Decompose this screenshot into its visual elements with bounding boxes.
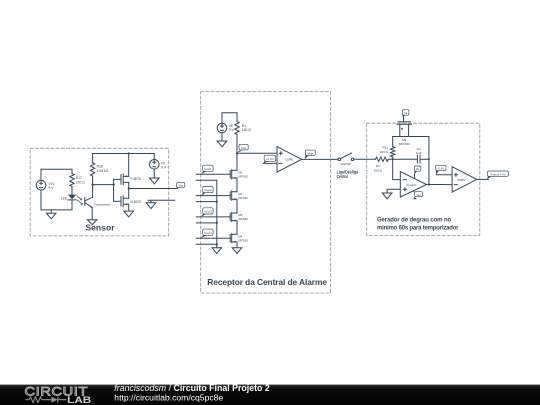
svg-text:R21: R21	[382, 145, 388, 149]
ground (bus)	[212, 248, 222, 254]
flag -0.6V	[436, 171, 439, 175]
wire collector vertical / R18 leads	[92, 154, 94, 198]
wire inner loop left lower	[40, 190, 42, 210]
ground (V9)	[150, 178, 160, 184]
wire R17 to LED	[71, 187, 73, 195]
wire ground to opamp plus	[387, 189, 400, 193]
transistor M1 IRF530	[230, 170, 237, 179]
voltage source V10	[36, 180, 46, 190]
voltage source V8	[217, 123, 227, 133]
transistor N-MOS (sensor)	[121, 196, 129, 207]
sensor section dashed box	[30, 148, 169, 236]
resistor R17	[70, 174, 74, 187]
svg-text:9V: 9V	[416, 167, 420, 171]
svg-text:IRF530: IRF530	[238, 196, 248, 200]
svg-text:Vss: Vss	[178, 183, 183, 187]
svg-text:http://circuitlab.com/cq5pc8e: http://circuitlab.com/cq5pc8e	[114, 393, 223, 403]
svg-text:Receptor da Central de Alarme: Receptor da Central de Alarme	[207, 277, 327, 287]
transistor M4 IRF530	[230, 234, 237, 243]
ground (opamp plus)	[382, 193, 392, 199]
wire gate bus vertical	[113, 179, 115, 201]
svg-text:Vsaout = 9V: Vsaout = 9V	[490, 172, 505, 176]
node dot A	[392, 158, 394, 160]
node dot rail/PMOS	[128, 152, 130, 154]
flag Vext2	[201, 193, 207, 196]
svg-text:Sensor: Sensor	[85, 223, 115, 233]
svg-text:+2.5V: +2.5V	[266, 157, 274, 161]
ground (M4 chain)	[232, 248, 242, 254]
wire reference stub	[148, 199, 175, 201]
svg-text:100 Ω: 100 Ω	[76, 181, 85, 185]
svg-text:minimo 60s para temporizador: minimo 60s para temporizador	[377, 225, 459, 231]
wire V10b drop	[153, 154, 155, 160]
wire P-MOS to N-MOS	[128, 182, 130, 198]
wire top rail M9	[393, 136, 429, 138]
op-amp AmpOp	[400, 172, 426, 198]
wire gate M1	[196, 173, 230, 175]
ground (V8)	[217, 141, 227, 147]
wire CMP2 plus input	[436, 174, 452, 176]
svg-text:franciscodsm / Circuito Final: franciscodsm / Circuito Final Projeto 2	[114, 383, 270, 393]
svg-text:CMP2: CMP2	[457, 178, 466, 182]
wire M3 source to M4 drain	[236, 221, 238, 235]
svg-text:Vext1: Vext1	[204, 167, 212, 171]
ground (reference stub)	[146, 200, 156, 208]
node dot return2/bus	[216, 201, 218, 203]
transistor M2 IRF530	[230, 191, 237, 200]
flag Vss	[176, 187, 180, 189]
svg-text:Fototransistor: Fototransistor	[94, 202, 111, 206]
wire comparator minus stub	[263, 162, 277, 164]
wire LED to bottom	[71, 200, 73, 210]
wire V- stub	[413, 191, 415, 192]
svg-text:9 V: 9 V	[49, 186, 55, 190]
wire V8 to ground	[221, 133, 223, 141]
flag +2.5V	[263, 161, 268, 163]
flag Vext4	[201, 235, 207, 238]
resistor R18	[90, 163, 94, 176]
flag 9V (V+)	[414, 171, 417, 175]
svg-text:R2: R2	[376, 164, 380, 168]
wire CMP1 output	[302, 158, 340, 160]
svg-text:1 µF: 1 µF	[416, 151, 422, 155]
wire V+ stub	[414, 175, 416, 179]
wire gate M4	[196, 237, 230, 239]
flag Va	[403, 115, 406, 118]
wire M1 source to M2 drain	[236, 178, 238, 192]
flag Vext3	[201, 214, 207, 217]
node dot output	[128, 187, 130, 189]
wire V8 top	[222, 113, 237, 124]
wire CMP2 output	[477, 178, 489, 180]
voltage source V9 (sensor right)	[150, 160, 160, 170]
wire R17 top lead	[71, 169, 73, 173]
wire return 3	[196, 222, 217, 224]
svg-text:Vext4: Vext4	[204, 231, 212, 235]
resistor R21	[391, 147, 395, 158]
wire M2 source to M3 drain	[236, 199, 238, 213]
svg-text:P-MOS: P-MOS	[130, 177, 140, 181]
wire switch to R2	[354, 158, 376, 160]
node dot return4/bus	[216, 243, 218, 245]
svg-text:100 Ω: 100 Ω	[242, 128, 251, 132]
wire inner loop top	[41, 168, 72, 170]
svg-text:AmpOp: AmpOp	[406, 183, 417, 187]
wire output to Vss	[129, 188, 178, 190]
wire feedback vertical	[428, 137, 430, 185]
LED D1	[68, 195, 76, 200]
ground (N-MOS)	[124, 211, 134, 217]
wire R21 lower lead	[392, 157, 394, 159]
svg-text:100 Ω: 100 Ω	[380, 150, 389, 154]
wire P-MOS drain up	[128, 154, 130, 177]
svg-text:Va: Va	[404, 111, 408, 115]
node dot return3/bus	[216, 222, 218, 224]
flag Vsaout = 9V	[487, 176, 491, 179]
wire C4 to feedback	[420, 158, 429, 160]
wire R1 to M1	[236, 135, 238, 171]
phototransistor emitter	[85, 203, 92, 208]
svg-text:Vala: Vala	[307, 151, 313, 155]
switch SW1 ON/OFF	[338, 158, 341, 161]
svg-text:Vext3: Vext3	[204, 210, 212, 214]
svg-text:100 Ω: 100 Ω	[374, 168, 383, 172]
node dot collector/gate	[92, 184, 94, 186]
logo resistor squiggle	[26, 397, 52, 403]
svg-text:IRF530: IRF530	[238, 217, 248, 221]
op-amp CMP1	[277, 147, 302, 173]
svg-text:CMP1: CMP1	[285, 158, 294, 162]
flag Vext1	[201, 171, 207, 174]
node dot gate bus	[113, 184, 115, 186]
phototransistor Q1 base bar	[84, 197, 86, 205]
resistor R1	[235, 122, 239, 135]
wire inner loop bottom	[41, 209, 72, 211]
svg-text:N-MOS: N-MOS	[130, 200, 141, 204]
LED light arrows	[77, 196, 82, 205]
wire N-MOS gate stub	[114, 200, 121, 202]
node dot C4/feedback	[428, 158, 430, 160]
wire Va to gate	[403, 117, 405, 121]
wire V9 to ground	[153, 169, 155, 178]
wire return 2	[196, 201, 217, 203]
wire gate M3	[196, 216, 230, 218]
wire M4 source down	[236, 242, 238, 248]
svg-text:LAB: LAB	[67, 395, 91, 405]
svg-text:R17: R17	[76, 176, 82, 180]
wire P-MOS gate stub	[114, 178, 121, 180]
wire top rail	[93, 153, 155, 155]
svg-text:IRF530: IRF530	[238, 239, 248, 243]
wire gate input	[93, 184, 114, 186]
wire return 4	[196, 243, 217, 245]
wire AmpOp output to CMP2	[427, 184, 453, 186]
wire R21 to rail	[392, 137, 394, 147]
svg-text:LED: LED	[61, 197, 68, 201]
svg-text:-0.6V: -0.6V	[437, 167, 444, 171]
svg-text:IRF530: IRF530	[238, 175, 248, 179]
wire return 1	[196, 179, 217, 181]
flag Vala	[304, 155, 308, 159]
phototransistor collector	[85, 197, 93, 201]
wire R2 to node A	[388, 158, 417, 160]
svg-text:-9V: -9V	[416, 193, 420, 197]
transistor M3 IRF530	[230, 212, 237, 221]
svg-text:R18: R18	[97, 165, 103, 169]
node dot output/feedback	[428, 183, 430, 185]
node dot R1/comparator	[236, 152, 238, 154]
wire comparator plus input	[237, 152, 277, 154]
svg-text:9 V: 9 V	[161, 165, 167, 169]
svg-text:Vext2: Vext2	[204, 188, 212, 192]
flag -9V (V-)	[415, 192, 423, 197]
wire N-MOS source down	[128, 204, 130, 211]
wire ground bus vertical	[216, 180, 218, 247]
logo diode	[51, 397, 58, 403]
svg-text:Central: Central	[337, 174, 348, 179]
capacitor C4	[417, 155, 420, 163]
wire node A to opamp minus	[393, 159, 401, 179]
gerador section dashed box	[367, 123, 480, 235]
wire inner loop left upper	[40, 169, 42, 180]
svg-text:ON/OFF: ON/OFF	[340, 162, 351, 166]
transistor P-MOS (sensor)	[121, 174, 129, 185]
svg-text:4.64 kΩ: 4.64 kΩ	[97, 169, 109, 173]
svg-text:IRF9530: IRF9530	[399, 142, 410, 146]
wire emitter down	[91, 208, 93, 220]
receptor section dashed box	[201, 92, 331, 293]
op-amp CMP2	[452, 167, 477, 193]
transistor M9 IRF9530	[397, 122, 412, 137]
resistor R2	[376, 157, 389, 161]
wire gate M2	[196, 195, 230, 197]
svg-text:Gerador de degrau com no: Gerador de degrau com no	[377, 217, 452, 223]
svg-text:Vsa: Vsa	[241, 146, 246, 150]
svg-text:9 V: 9 V	[229, 128, 235, 132]
flag Vsa	[237, 151, 242, 153]
ground (phototransistor)	[87, 220, 97, 225]
ground (sensor inner)	[46, 210, 56, 219]
